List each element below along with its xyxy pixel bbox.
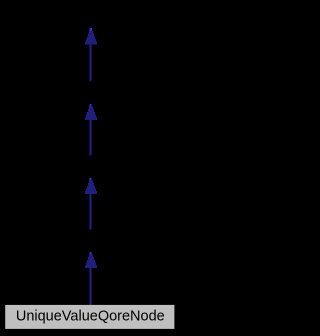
node box UniqueValueQoreNode (current class, grey fill) xyxy=(5,305,174,329)
inheritance arrow 1 (topmost, pointing up to hidden base class node) xyxy=(85,28,97,82)
inheritance arrow 4 (points up from UniqueValueQoreNode box) xyxy=(85,252,97,305)
inheritance arrow 2 xyxy=(85,104,97,156)
inheritance arrow 3 xyxy=(85,178,97,230)
svg-text:UniqueValueQoreNode: UniqueValueQoreNode xyxy=(16,309,165,325)
